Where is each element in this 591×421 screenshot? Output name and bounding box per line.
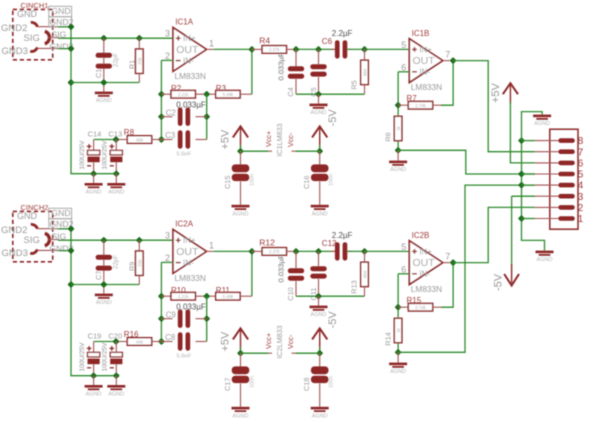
svg-text:AGND: AGND: [86, 190, 102, 196]
svg-text:R8: R8: [124, 128, 135, 137]
svg-text:OUT: OUT: [413, 55, 436, 67]
svg-text:LM833N: LM833N: [175, 273, 206, 283]
svg-text:IC1A: IC1A: [175, 18, 193, 27]
svg-text:GND3: GND3: [2, 248, 28, 259]
svg-text:-5V: -5V: [327, 109, 339, 127]
svg-text:5: 5: [578, 170, 584, 181]
svg-text:3: 3: [165, 231, 170, 241]
svg-text:100U/25V: 100U/25V: [102, 140, 109, 170]
svg-text:2: 2: [165, 51, 170, 61]
svg-text:+5V: +5V: [220, 129, 232, 150]
svg-text:GND: GND: [17, 211, 38, 221]
svg-text:R14: R14: [384, 332, 393, 345]
svg-text:GND: GND: [17, 9, 38, 19]
svg-text:6: 6: [401, 62, 406, 72]
svg-text:SIG: SIG: [24, 33, 40, 44]
svg-text:2: 2: [578, 203, 584, 214]
svg-text:1: 1: [209, 240, 214, 250]
svg-text:22pF: 22pF: [113, 53, 120, 67]
svg-text:IC2LM833: IC2LM833: [275, 325, 284, 358]
svg-text:R15: R15: [407, 296, 422, 305]
svg-text:AGND: AGND: [311, 312, 327, 318]
svg-text:Vcc-: Vcc-: [286, 334, 295, 349]
svg-text:AGND: AGND: [86, 392, 102, 398]
svg-text:604: 604: [362, 270, 367, 278]
svg-text:GND: GND: [52, 6, 71, 16]
svg-text:100U/25V: 100U/25V: [102, 342, 109, 372]
svg-text:2.37k: 2.37k: [269, 249, 280, 254]
svg-text:AGND: AGND: [96, 98, 112, 104]
svg-text:AGND: AGND: [537, 257, 553, 263]
svg-text:IN-: IN-: [183, 57, 194, 66]
svg-text:C18: C18: [302, 378, 311, 391]
svg-text:IC1B: IC1B: [412, 29, 430, 38]
svg-text:R6: R6: [384, 132, 393, 141]
svg-text:-5V: -5V: [327, 311, 339, 329]
svg-text:6: 6: [401, 264, 406, 274]
svg-text:2.2µF: 2.2µF: [332, 29, 353, 38]
svg-text:R2: R2: [171, 84, 182, 93]
svg-text:-5V: -5V: [493, 273, 505, 291]
svg-text:IC2A: IC2A: [175, 220, 193, 229]
svg-text:604: 604: [362, 68, 367, 76]
svg-text:OUT: OUT: [413, 257, 436, 269]
svg-text:3: 3: [165, 29, 170, 39]
svg-text:C10: C10: [286, 287, 295, 300]
svg-text:IN-: IN-: [183, 259, 194, 268]
svg-text:C19: C19: [88, 332, 102, 341]
svg-text:AGND: AGND: [108, 392, 124, 398]
svg-text:R1: R1: [127, 60, 136, 69]
svg-text:AGND: AGND: [312, 211, 328, 217]
svg-text:AGND: AGND: [534, 121, 550, 127]
svg-text:R11: R11: [216, 286, 231, 295]
svg-text:C2: C2: [166, 109, 176, 118]
svg-text:C20: C20: [108, 332, 122, 341]
svg-text:499: 499: [136, 137, 144, 142]
svg-text:C11: C11: [309, 288, 318, 301]
svg-text:OUT: OUT: [176, 44, 199, 56]
svg-text:IN+: IN+: [183, 34, 196, 43]
svg-text:+5V: +5V: [220, 331, 232, 352]
svg-text:C4: C4: [286, 87, 295, 96]
svg-text:0.033µF: 0.033µF: [277, 254, 286, 282]
svg-text:22p: 22p: [137, 259, 142, 267]
svg-text:2.74k: 2.74k: [415, 305, 426, 310]
svg-text:1: 1: [209, 38, 214, 48]
svg-text:AGND: AGND: [108, 190, 124, 196]
svg-text:4: 4: [578, 181, 584, 192]
svg-text:R13: R13: [350, 280, 359, 293]
svg-text:100n: 100n: [329, 174, 335, 186]
svg-text:IC2B: IC2B: [412, 231, 430, 240]
svg-text:R4: R4: [259, 36, 270, 46]
svg-text:100n: 100n: [250, 376, 256, 388]
svg-text:C6: C6: [322, 37, 333, 46]
svg-text:R7: R7: [407, 94, 418, 103]
svg-text:GND: GND: [52, 208, 71, 218]
svg-text:IC1LM833: IC1LM833: [275, 123, 284, 156]
svg-text:C16: C16: [302, 176, 311, 189]
svg-text:Vcc-: Vcc-: [286, 132, 295, 147]
svg-text:C3: C3: [165, 131, 175, 140]
svg-text:SIG: SIG: [24, 235, 40, 246]
svg-text:100U/25V: 100U/25V: [79, 140, 86, 170]
svg-text:C14: C14: [88, 130, 102, 139]
svg-text:GND3: GND3: [2, 46, 28, 57]
svg-text:R16: R16: [124, 330, 139, 339]
svg-text:2: 2: [165, 253, 170, 263]
svg-text:IN+: IN+: [419, 45, 432, 54]
svg-text:C13: C13: [108, 130, 122, 139]
svg-text:LM833N: LM833N: [411, 284, 442, 294]
svg-text:C9: C9: [166, 311, 176, 320]
svg-text:IN-: IN-: [419, 270, 430, 279]
svg-text:C1: C1: [94, 69, 103, 78]
svg-text:R12: R12: [259, 238, 275, 248]
svg-text:2.2µF: 2.2µF: [332, 231, 353, 240]
svg-text:7: 7: [445, 50, 450, 60]
svg-text:AGND: AGND: [312, 413, 328, 419]
svg-text:C17: C17: [223, 378, 232, 391]
svg-text:IN+: IN+: [183, 236, 196, 245]
svg-text:AGND: AGND: [96, 300, 112, 306]
svg-text:R5: R5: [350, 80, 359, 89]
svg-text:C15: C15: [223, 176, 232, 189]
svg-text:+5V: +5V: [490, 82, 502, 103]
svg-text:R9: R9: [127, 262, 136, 271]
svg-text:R3: R3: [216, 84, 227, 93]
svg-text:5.6nF: 5.6nF: [177, 354, 192, 360]
svg-text:5.6nF: 5.6nF: [177, 152, 192, 158]
svg-text:7: 7: [445, 252, 450, 262]
svg-text:5: 5: [401, 40, 406, 50]
svg-text:100n: 100n: [329, 376, 335, 388]
svg-text:LM833N: LM833N: [411, 82, 442, 92]
svg-text:AGND: AGND: [233, 211, 249, 217]
svg-text:0.033µF: 0.033µF: [277, 52, 286, 80]
svg-text:1: 1: [578, 214, 584, 225]
svg-text:R10: R10: [171, 286, 186, 295]
svg-text:AGND: AGND: [311, 110, 327, 116]
svg-text:100n: 100n: [250, 174, 256, 186]
svg-text:2.74k: 2.74k: [415, 103, 426, 108]
svg-text:100U/25V: 100U/25V: [79, 342, 86, 372]
svg-text:5: 5: [401, 242, 406, 252]
svg-text:AGND: AGND: [233, 413, 249, 419]
svg-text:22p: 22p: [137, 57, 142, 65]
svg-text:C7: C7: [94, 271, 103, 280]
svg-text:22pF: 22pF: [113, 255, 120, 269]
svg-text:IN-: IN-: [419, 68, 430, 77]
svg-text:8: 8: [578, 136, 584, 147]
svg-text:7: 7: [578, 147, 584, 158]
svg-text:AGND: AGND: [390, 167, 406, 173]
svg-text:6: 6: [578, 159, 584, 170]
svg-text:2.37k: 2.37k: [269, 47, 280, 52]
svg-text:LM833N: LM833N: [175, 71, 206, 81]
svg-text:C12: C12: [322, 239, 337, 248]
svg-text:IN+: IN+: [419, 247, 432, 256]
svg-text:C8: C8: [165, 333, 175, 342]
svg-text:AGND: AGND: [390, 369, 406, 375]
svg-text:499: 499: [136, 339, 144, 344]
svg-text:3: 3: [578, 192, 584, 203]
svg-text:Vcc+: Vcc+: [264, 333, 273, 349]
svg-text:OUT: OUT: [176, 246, 199, 258]
svg-text:Vcc+: Vcc+: [264, 131, 273, 147]
